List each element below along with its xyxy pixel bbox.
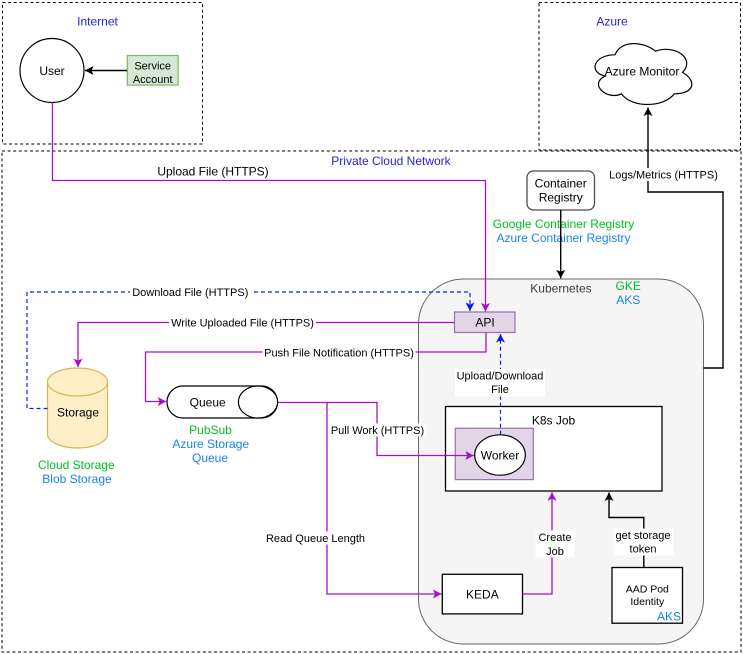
- svg-text:Write Uploaded File (HTTPS): Write Uploaded File (HTTPS): [171, 317, 314, 329]
- svg-text:GKE: GKE: [616, 279, 641, 293]
- svg-text:PubSub: PubSub: [189, 423, 232, 437]
- wire Storage to API dashed (Download File): [27, 292, 470, 409]
- svg-text:Private Cloud Network: Private Cloud Network: [331, 154, 451, 168]
- wire Queue to Worker (Pull Work): [278, 403, 474, 456]
- label Pull Work (HTTPS): [329, 424, 427, 437]
- svg-text:Create: Create: [538, 532, 571, 544]
- node Service Account: [127, 56, 178, 87]
- node User: [20, 39, 84, 103]
- svg-text:API: API: [475, 316, 494, 330]
- container Internet: [3, 3, 203, 145]
- node K8s Job: [446, 407, 663, 492]
- svg-text:Pull Work (HTTPS): Pull Work (HTTPS): [331, 425, 424, 437]
- node Worker ellipse: [475, 435, 526, 475]
- svg-text:AKS: AKS: [616, 293, 640, 307]
- svg-text:Logs/Metrics (HTTPS): Logs/Metrics (HTTPS): [609, 169, 718, 181]
- node Container Registry: [527, 171, 595, 210]
- svg-text:Queue: Queue: [192, 451, 228, 465]
- svg-text:Kubernetes: Kubernetes: [530, 282, 591, 296]
- svg-text:Azure Container Registry: Azure Container Registry: [496, 231, 630, 245]
- svg-text:Identity: Identity: [630, 596, 665, 608]
- svg-text:Blob Storage: Blob Storage: [42, 472, 112, 486]
- wire KEDA to K8s Job (Create Job): [523, 492, 553, 594]
- wire Container Registry to Kubernetes: [560, 210, 562, 278]
- svg-text:Worker: Worker: [481, 448, 519, 462]
- svg-text:Push File Notification (HTTPS): Push File Notification (HTTPS): [264, 347, 414, 359]
- wire API to Storage (Write Uploaded File): [78, 323, 455, 368]
- svg-text:Azure Storage: Azure Storage: [172, 437, 249, 451]
- label Download File (HTTPS): [130, 286, 251, 299]
- svg-text:Upload File (HTTPS): Upload File (HTTPS): [157, 165, 268, 179]
- svg-text:User: User: [39, 64, 64, 78]
- label Logs/Metrics (HTTPS): [607, 168, 720, 181]
- svg-text:Container: Container: [535, 177, 587, 191]
- node Storage cylinder: [48, 368, 108, 448]
- label Write Uploaded File (HTTPS): [169, 316, 316, 329]
- wire Service Account to User: [85, 70, 127, 72]
- wire Worker to API dashed (Upload/Download File): [500, 334, 502, 435]
- svg-text:Read Queue Length: Read Queue Length: [266, 533, 365, 545]
- label Push File Notification (HTTPS): [263, 346, 416, 359]
- node KEDA: [442, 574, 522, 614]
- svg-text:get storage: get storage: [615, 530, 670, 542]
- svg-text:Google Container Registry: Google Container Registry: [493, 217, 634, 231]
- svg-text:Internet: Internet: [77, 15, 118, 29]
- svg-text:Job: Job: [546, 546, 564, 558]
- label Read Queue Length: [264, 532, 367, 545]
- wire API to Queue (Push File Notification): [146, 333, 487, 402]
- svg-text:token: token: [630, 544, 657, 556]
- container Kubernetes: [419, 279, 704, 644]
- node Queue: [167, 386, 278, 418]
- wire AAD Pod Identity to K8s Job (get storage token): [609, 493, 644, 568]
- svg-text:Azure Monitor: Azure Monitor: [605, 65, 680, 79]
- svg-text:File: File: [491, 384, 509, 396]
- svg-text:Queue: Queue: [190, 395, 226, 409]
- svg-text:Registry: Registry: [539, 191, 583, 205]
- svg-text:Download File (HTTPS): Download File (HTTPS): [132, 287, 248, 299]
- svg-text:KEDA: KEDA: [466, 588, 499, 602]
- label Upload File (HTTPS): [155, 165, 271, 179]
- svg-text:AKS: AKS: [657, 610, 681, 624]
- node Worker group: [455, 428, 533, 479]
- container Azure: [539, 3, 741, 151]
- svg-text:Storage: Storage: [57, 405, 99, 419]
- svg-text:AAD Pod: AAD Pod: [626, 584, 669, 596]
- wire Kubernetes to Azure Monitor (Logs/Metrics): [648, 108, 723, 369]
- svg-text:Cloud Storage: Cloud Storage: [38, 458, 115, 472]
- label Upload/Download File: [455, 369, 545, 397]
- wire User to API (Upload File): [53, 103, 486, 312]
- wire Queue to KEDA (Read Queue Length): [327, 403, 442, 595]
- container Private Cloud Network: [2, 151, 741, 652]
- label Create Job: [536, 531, 575, 558]
- node API: [455, 312, 516, 333]
- node AAD Pod Identity: [612, 568, 683, 624]
- label get storage token: [614, 529, 674, 556]
- node Azure Monitor cloud: [595, 44, 692, 105]
- svg-text:Azure: Azure: [596, 14, 628, 28]
- svg-text:Service: Service: [134, 60, 171, 72]
- svg-text:Account: Account: [133, 74, 173, 86]
- svg-text:K8s Job: K8s Job: [532, 414, 576, 428]
- svg-text:Upload/Download: Upload/Download: [457, 371, 544, 383]
